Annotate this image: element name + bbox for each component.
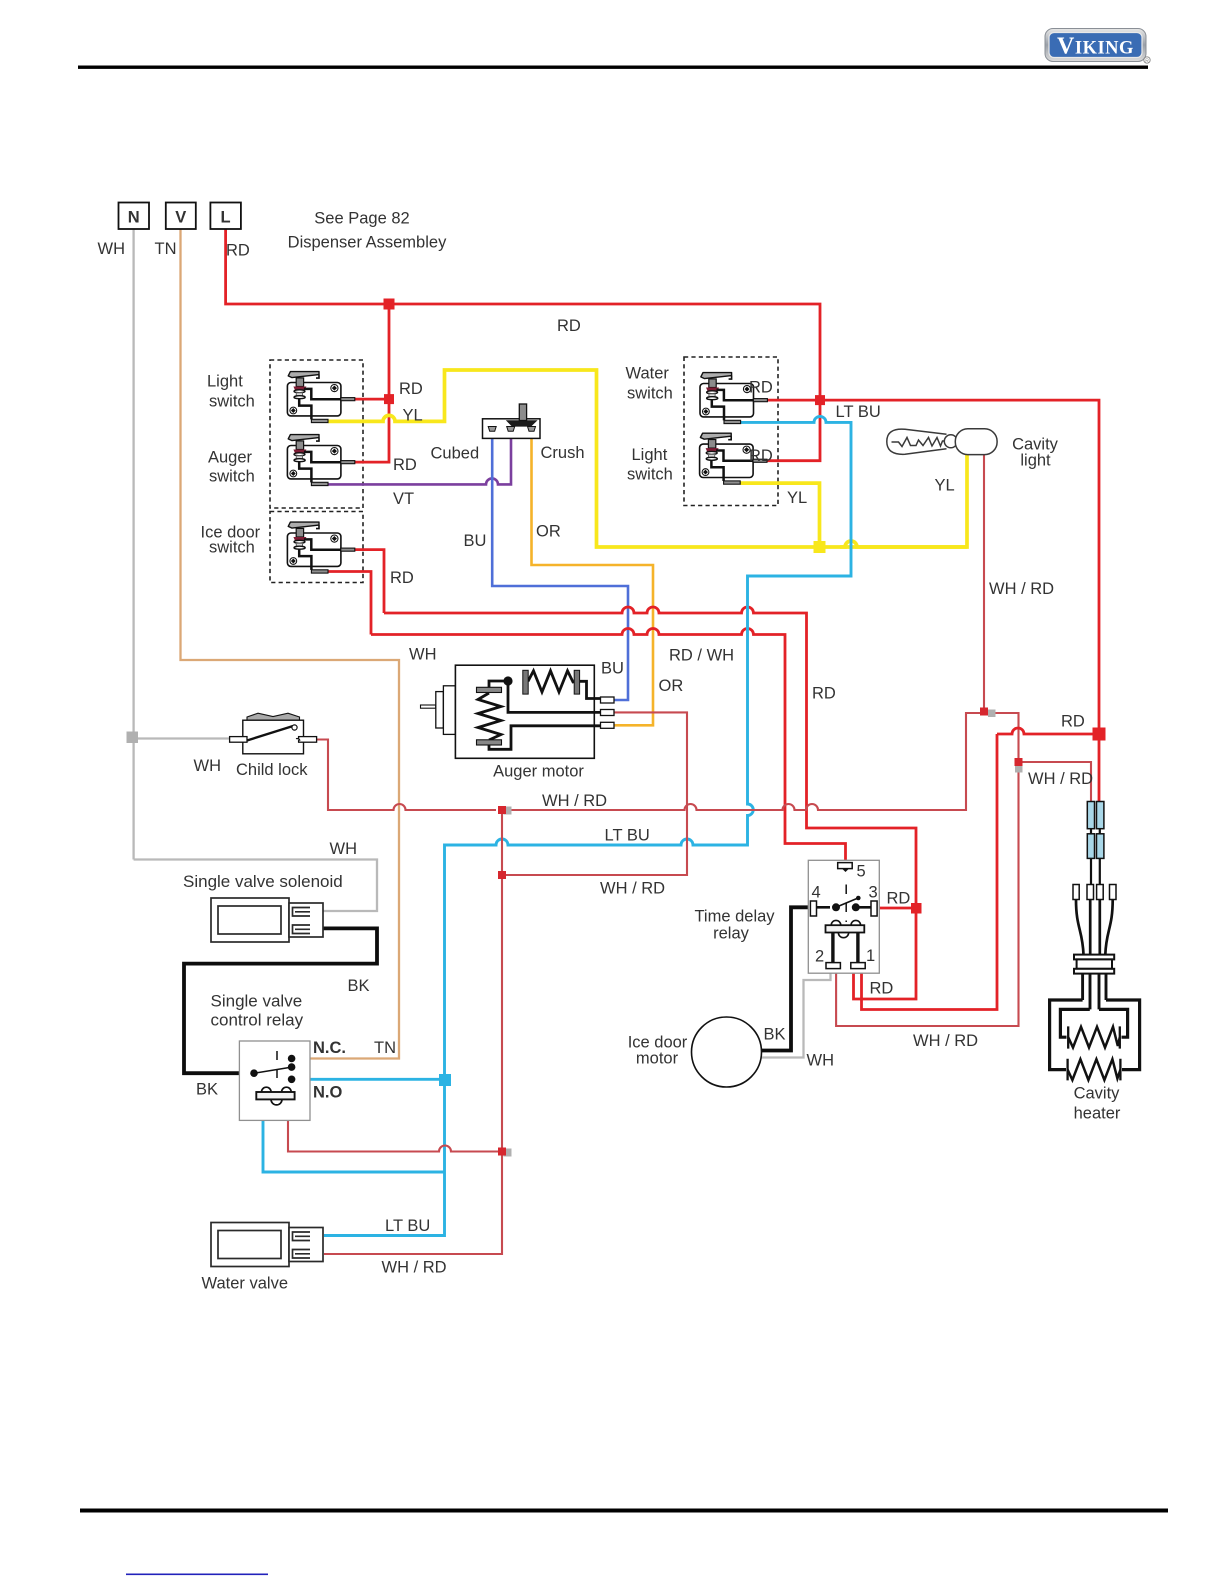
- svg-text:switch: switch: [627, 385, 673, 403]
- svg-text:Auger motor: Auger motor: [493, 763, 584, 781]
- svg-text:WH / RD: WH / RD: [382, 1259, 447, 1277]
- junction gray WH child lock: [127, 732, 139, 744]
- svg-text:See Page 82: See Page 82: [314, 210, 409, 228]
- junction YL: [814, 541, 826, 553]
- svg-text:L: L: [221, 209, 231, 227]
- svg-text:BK: BK: [764, 1026, 786, 1044]
- wire BU selector to auger motor: [492, 431, 628, 700]
- wire TN from V box to control relay N.C.: [181, 229, 400, 1059]
- svg-text:N.C.: N.C.: [313, 1039, 346, 1057]
- wire WHRD child lock row: [317, 740, 496, 811]
- wire LT BU water switch down middle column: [324, 416, 851, 1235]
- wire WHRD control relay coil to junction hop LT BU: [288, 1099, 498, 1151]
- svg-text:RD: RD: [887, 890, 911, 908]
- wire RD time relay terminal 1 to junction 3: [854, 908, 917, 999]
- terminal box L: [210, 203, 241, 230]
- svg-text:R: R: [1145, 58, 1149, 64]
- junction WHRD heater branch: [1015, 758, 1023, 766]
- svg-text:LT BU: LT BU: [836, 403, 881, 421]
- svg-text:BK: BK: [348, 977, 370, 995]
- svg-text:RD: RD: [390, 569, 414, 587]
- wire RD from L box along top to water switch: [226, 229, 820, 400]
- wire WH junction to child lock left terminal: [134, 737, 230, 739]
- svg-text:Cubed: Cubed: [431, 445, 480, 463]
- svg-text:N: N: [128, 209, 140, 227]
- cavity heater crimp sleeves: [1087, 802, 1104, 859]
- single valve control relay: [239, 1041, 310, 1120]
- svg-text:Water valve: Water valve: [202, 1275, 289, 1293]
- svg-text:BK: BK: [196, 1081, 218, 1099]
- junction WHRD cavity light: [980, 708, 988, 716]
- wire RD time relay terminal 1 to right column: [862, 734, 998, 1010]
- svg-text:Auger: Auger: [208, 449, 253, 467]
- svg-text:WH: WH: [194, 757, 222, 775]
- svg-text:4: 4: [812, 884, 821, 902]
- junction WHRD child lock row: [498, 806, 506, 814]
- ice door motor: [692, 1017, 762, 1087]
- svg-text:LT BU: LT BU: [605, 827, 650, 845]
- wire OR selector to auger motor: [532, 431, 654, 725]
- wire WHRD row to cavity light branch: [506, 713, 984, 810]
- page footer rule: [80, 1509, 1168, 1513]
- svg-text:Water: Water: [626, 365, 670, 383]
- svg-text:Single valve: Single valve: [211, 992, 303, 1011]
- junction WHRD cavity light gray tick: [988, 710, 996, 718]
- svg-text:RD: RD: [226, 242, 250, 260]
- svg-text:BU: BU: [601, 660, 624, 678]
- svg-text:RD: RD: [870, 980, 894, 998]
- wire RD junction down to right light switch: [767, 400, 820, 461]
- svg-text:Time delay: Time delay: [694, 908, 775, 926]
- cavity heater terminals: [1073, 885, 1116, 900]
- svg-text:YL: YL: [403, 407, 423, 425]
- light switch: [287, 372, 354, 423]
- svg-text:WH: WH: [98, 240, 126, 258]
- wire WHRD junction right to connector: [1019, 762, 1092, 802]
- wire RD right column riser row hop: [997, 728, 1099, 734]
- wire YL hop over LT BU: [840, 541, 967, 547]
- svg-text:N.O: N.O: [313, 1084, 343, 1102]
- wire BK time relay terminal 4 to ice door motor: [760, 907, 834, 1050]
- svg-text:VT: VT: [393, 490, 414, 508]
- cavity heater collar: [1074, 955, 1114, 974]
- svg-text:switch: switch: [209, 468, 255, 486]
- dashed box ice door switch: [270, 512, 363, 583]
- auger motor: [421, 665, 615, 758]
- terminal box N: [119, 203, 150, 230]
- svg-text:light: light: [1020, 452, 1051, 470]
- svg-text:5: 5: [857, 863, 866, 881]
- wire LT BU control relay coil: [263, 1099, 445, 1172]
- junction RD right column: [1093, 728, 1106, 741]
- svg-text:Dispenser Assembley: Dispenser Assembley: [288, 234, 447, 252]
- svg-text:YL: YL: [787, 489, 807, 507]
- svg-text:WH: WH: [330, 840, 358, 858]
- wire YL light switch bottom hop red: [328, 370, 961, 547]
- junction RD light switch: [384, 394, 394, 404]
- cavity heater element: [1050, 974, 1140, 1081]
- wire RD junction to auger switch: [355, 399, 389, 462]
- wire RD ice door switch bottom to row2: [328, 572, 371, 635]
- auger switch: [287, 435, 354, 486]
- svg-text:YL: YL: [935, 477, 955, 495]
- cavity light bulb: [887, 429, 997, 455]
- wire RD drop to light switch: [388, 304, 391, 399]
- svg-text:LT BU: LT BU: [385, 1217, 430, 1235]
- svg-text:WH: WH: [807, 1052, 835, 1070]
- svg-text:1: 1: [866, 947, 875, 965]
- junction WHRD child lock row gray tick: [504, 807, 512, 815]
- wire WH from N box down to child lock junction: [132, 229, 134, 860]
- junction WHRD valve riser: [498, 1148, 506, 1156]
- child lock switch: [230, 713, 317, 754]
- svg-text:heater: heater: [1074, 1105, 1121, 1123]
- svg-text:OR: OR: [536, 523, 561, 541]
- cavity heater lead wires: [1076, 900, 1113, 955]
- junction WHRD auger row: [498, 871, 506, 879]
- svg-text:switch: switch: [209, 393, 255, 411]
- svg-text:Cavity: Cavity: [1074, 1085, 1121, 1103]
- svg-text:RD: RD: [557, 317, 581, 335]
- junction RD time relay terminal 3: [911, 903, 922, 914]
- ice door switch: [287, 522, 354, 573]
- svg-text:RD: RD: [812, 685, 836, 703]
- Viking logo: [1045, 29, 1150, 65]
- svg-text:WH: WH: [409, 646, 437, 664]
- wire RD row2 to time relay terminal 3: [371, 629, 846, 864]
- dashed box water+light switches: [684, 357, 778, 506]
- dashed box light+auger switches: [270, 360, 363, 508]
- svg-text:2: 2: [815, 948, 824, 966]
- wire RD row1 to time relay terminal 5: [384, 607, 916, 904]
- footer link underline: [126, 1574, 268, 1576]
- svg-text:WH / RD: WH / RD: [989, 580, 1054, 598]
- light switch right: [700, 433, 767, 484]
- svg-text:OR: OR: [659, 677, 684, 695]
- wire RD water switch to right column: [767, 400, 1099, 802]
- wire WHRD water valve riser: [324, 810, 502, 1254]
- wire WH row to solenoid: [134, 860, 377, 912]
- svg-text:WH / RD: WH / RD: [542, 792, 607, 810]
- svg-text:3: 3: [869, 884, 878, 902]
- svg-text:WH / RD: WH / RD: [600, 880, 665, 898]
- svg-text:BU: BU: [464, 532, 487, 550]
- water valve connector: [211, 1223, 323, 1267]
- selector switch cubed crush: [483, 404, 541, 438]
- wire WHRD auger motor mid terminal to riser junction: [506, 712, 687, 875]
- time delay relay: [808, 860, 879, 973]
- wire WHRD cavity light right lead: [983, 455, 985, 713]
- svg-text:WH / RD: WH / RD: [913, 1032, 978, 1050]
- svg-text:RD / WH: RD / WH: [669, 647, 734, 665]
- svg-text:RD: RD: [1061, 713, 1085, 731]
- wire LT BU control relay N.O.: [295, 1078, 445, 1081]
- svg-text:relay: relay: [713, 925, 750, 943]
- svg-text:switch: switch: [209, 539, 255, 557]
- svg-text:control relay: control relay: [211, 1011, 304, 1030]
- terminal box V: [166, 203, 196, 230]
- svg-text:Light: Light: [207, 373, 243, 391]
- svg-text:RD: RD: [399, 380, 423, 398]
- wire WHRD junction down to time relay terminal 2: [836, 762, 1018, 1026]
- junction RD at top row: [384, 299, 395, 310]
- svg-text:Single valve solenoid: Single valve solenoid: [183, 872, 343, 891]
- svg-text:TN: TN: [155, 240, 177, 258]
- page header rule top: [78, 66, 1148, 69]
- svg-text:WH / RD: WH / RD: [1028, 770, 1093, 788]
- svg-text:RD: RD: [393, 456, 417, 474]
- wire WHRD junction to heater connector left: [984, 713, 1019, 762]
- svg-text:TN: TN: [374, 1039, 396, 1057]
- wire YL right light switch to junction: [740, 483, 819, 547]
- water switch: [700, 373, 767, 424]
- single valve solenoid connector: [211, 898, 323, 942]
- wire WH time relay terminal 2 to ice door motor: [756, 969, 831, 1058]
- wire RD light switch to junction: [355, 398, 389, 401]
- svg-text:switch: switch: [627, 466, 673, 484]
- svg-text:RD: RD: [749, 379, 773, 397]
- junction RD water switch: [815, 395, 825, 405]
- svg-text:Child lock: Child lock: [236, 761, 308, 779]
- junction WHRD valve riser gray tick: [504, 1149, 512, 1157]
- wire RD time relay terminal 3 to junction: [878, 907, 917, 910]
- wire RD ice door switch top to row1: [355, 550, 384, 613]
- wire YL cavity light lead: [961, 455, 967, 547]
- junction WHRD heater branch gray tick: [1015, 765, 1023, 773]
- svg-text:Light: Light: [632, 446, 668, 464]
- svg-text:motor: motor: [636, 1050, 679, 1068]
- wire VT auger switch to selector hop BU: [328, 431, 511, 484]
- junction LT BU: [439, 1074, 451, 1086]
- svg-text:Crush: Crush: [541, 444, 585, 462]
- wire BK solenoid to control relay common: [184, 928, 377, 1073]
- svg-text:V: V: [175, 209, 186, 227]
- cavity heater connector wires: [1091, 829, 1100, 885]
- svg-text:RD: RD: [749, 447, 773, 465]
